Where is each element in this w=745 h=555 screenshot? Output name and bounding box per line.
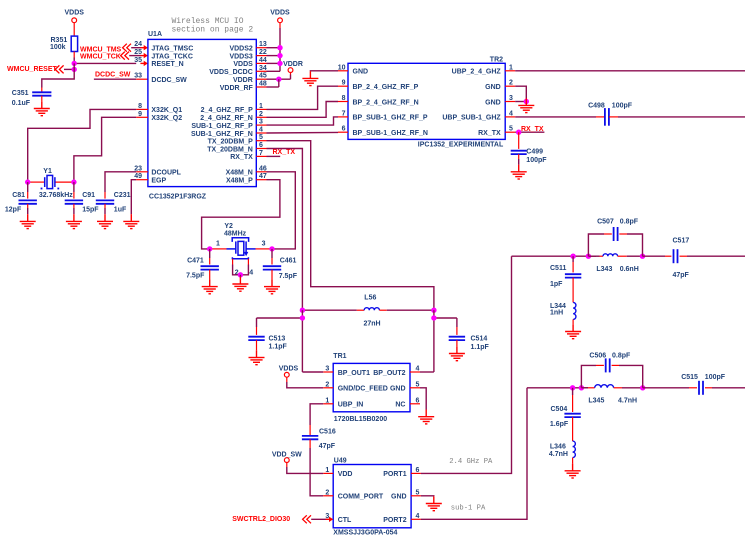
pin stub pin 9: [136, 116, 148, 118]
svg-text:1.1pF: 1.1pF: [269, 344, 288, 351]
pin stub pin 23: [136, 171, 148, 173]
capacitor C461: [263, 266, 281, 269]
ground below EGP: [123, 214, 139, 228]
svg-text:2_4_GHZ_RF_P: 2_4_GHZ_RF_P: [201, 107, 253, 114]
svg-text:VDDS: VDDS: [270, 10, 290, 17]
wire Y1 right to C91: [73, 182, 75, 192]
svg-text:DCDC_SW: DCDC_SW: [95, 72, 131, 79]
U49 pin stub 2: [323, 495, 333, 497]
wire WMCU_TMS to pin 24: [131, 47, 141, 49]
pin stub pin 44: [256, 62, 266, 64]
capacitor C513: [248, 337, 264, 340]
wire C504 to L346: [572, 417, 574, 428]
wire X48M_N pin 46 to Y2 pin 3: [267, 172, 296, 249]
capacitor C507: [614, 227, 618, 241]
ground below C514: [449, 346, 465, 360]
U49 pin stub 5: [411, 495, 421, 497]
junction VDDS2: [277, 45, 282, 50]
TR2 pin stub 3: [505, 101, 515, 103]
transformer TR2 body: [348, 63, 505, 139]
wire rail L345 to C515: [643, 387, 689, 389]
svg-text:VDDR: VDDR: [233, 77, 253, 84]
svg-text:C231: C231: [114, 192, 131, 199]
offpage chevron WMCU_TCK: [121, 52, 129, 60]
TR1 pin stub 3: [323, 371, 333, 373]
svg-text:NC: NC: [395, 402, 405, 409]
svg-text:1nH: 1nH: [550, 310, 563, 317]
TR2 pin stub 4: [505, 116, 515, 118]
svg-text:C516: C516: [319, 428, 336, 435]
svg-text:47pF: 47pF: [319, 443, 336, 450]
svg-text:SUB-1_GHZ_RF_P: SUB-1_GHZ_RF_P: [191, 123, 253, 130]
wire C506 to right riser: [612, 364, 619, 366]
wire node A down to TR1 BP_OUT1: [301, 310, 303, 372]
svg-text:GND: GND: [353, 69, 369, 76]
pin stub pin 34: [256, 70, 266, 72]
transformer TR1 body: [333, 363, 410, 411]
wire TR2 pin 5 RX_TX stub: [515, 131, 544, 133]
wire Y2 case pins 2 and 4 to ground: [232, 259, 234, 265]
svg-text:1uF: 1uF: [114, 207, 127, 214]
svg-text:BP_OUT2: BP_OUT2: [373, 370, 405, 377]
junction C504 tap: [570, 385, 575, 390]
svg-text:CC1352P1F3RGZ: CC1352P1F3RGZ: [149, 194, 207, 201]
svg-text:UBP_SUB-1_GHZ: UBP_SUB-1_GHZ: [442, 115, 501, 122]
svg-text:0.1uF: 0.1uF: [12, 100, 31, 107]
junction node A branch: [300, 315, 305, 320]
junction WMCU_RESET node: [72, 67, 77, 72]
wire junction down to C351: [42, 63, 74, 87]
pin stub pin 5: [256, 140, 266, 142]
capacitor C471: [201, 266, 219, 269]
svg-text:27nH: 27nH: [364, 320, 381, 327]
ground below Y2: [232, 277, 248, 291]
svg-text:0.8pF: 0.8pF: [612, 353, 631, 360]
svg-text:VDDS2: VDDS2: [229, 46, 252, 53]
op-amp U1A chip body CC1352: [148, 39, 256, 186]
wire X48M_P pin 47 to Y2 pin 1: [202, 180, 280, 249]
junction Y1 right node: [71, 179, 76, 184]
svg-text:4.7nH: 4.7nH: [549, 451, 568, 458]
wire TR1 pin 4 to node B vertical: [420, 371, 434, 373]
junction C506 right riser: [640, 385, 645, 390]
U49 pin stub 6: [411, 472, 421, 474]
svg-text:TX_20DBM_P: TX_20DBM_P: [208, 139, 253, 146]
ground below C499: [511, 165, 527, 179]
wire C514 riser: [456, 318, 458, 327]
wire C231 to ground: [104, 204, 106, 208]
svg-text:UBP_IN: UBP_IN: [338, 402, 364, 409]
wire TR2 pin 1 UBP_2_4_GHZ rail: [515, 70, 745, 72]
capacitor C511: [565, 274, 581, 277]
ground at TR2 pins 2-3: [518, 98, 534, 112]
TR1 pin stub 1: [323, 403, 333, 405]
input arrow U49 CTL pin 3: [326, 518, 331, 520]
wire VDDS to R351: [73, 23, 75, 36]
junction node B (L56 right): [431, 308, 436, 313]
svg-text:0.6nH: 0.6nH: [620, 266, 639, 273]
crystal Y2 48MHz: [211, 248, 227, 250]
svg-text:DCOUPL: DCOUPL: [151, 170, 181, 177]
svg-text:C91: C91: [82, 192, 95, 199]
svg-text:100pF: 100pF: [612, 103, 633, 110]
svg-text:GND: GND: [391, 494, 407, 501]
wire DCDC_SW to pin 33: [94, 78, 136, 80]
svg-text:25: 25: [134, 49, 142, 56]
wire L346 to ground: [572, 458, 574, 464]
ground at U49 pin 5: [426, 496, 442, 510]
wire VDDS to TR1 pin 2: [286, 377, 288, 382]
crystal Y1: [29, 181, 45, 183]
ground below C351: [34, 101, 50, 115]
svg-text:C499: C499: [526, 149, 543, 156]
wire C507 to right riser: [619, 233, 627, 235]
ground below C91: [66, 214, 82, 228]
wire RX_TX down to C499: [518, 132, 520, 149]
svg-text:XMSSJJ3G0PA-054: XMSSJJ3G0PA-054: [333, 530, 397, 537]
pin stub pin 22: [256, 55, 266, 57]
wire TR1 pin 3 to node A vertical: [302, 371, 323, 373]
svg-text:C511: C511: [550, 265, 566, 272]
pin stub pin 8: [136, 108, 148, 110]
wire C351 to ground: [41, 96, 43, 102]
wire C461 to ground: [271, 270, 273, 280]
svg-text:X32K_Q1: X32K_Q1: [151, 107, 182, 114]
wire C499 to ground: [518, 154, 520, 159]
wire node A branch to C513: [257, 317, 303, 319]
svg-text:C514: C514: [471, 336, 488, 343]
svg-text:L343: L343: [596, 266, 612, 273]
pin stub pin 49: [136, 179, 148, 181]
capacitor C81: [19, 200, 37, 203]
junction C511 tap: [570, 254, 575, 259]
offpage chevron SWCTRL2_DIO30: [303, 515, 311, 523]
svg-text:DCDC_SW: DCDC_SW: [151, 77, 187, 84]
svg-text:32.768kHz: 32.768kHz: [39, 192, 73, 199]
junction TR2 GND pins: [524, 99, 529, 104]
wire RX_TX stub at chip pin 7: [267, 155, 281, 157]
wire U49 PORT1 up to 2.4GHz filter rail: [421, 256, 512, 473]
svg-text:1: 1: [216, 241, 220, 248]
svg-text:RX_TX: RX_TX: [230, 154, 253, 161]
wire X32K_Q2 pin 9 to Y1 right: [74, 117, 136, 182]
capacitor C498: [605, 108, 609, 126]
svg-text:U49: U49: [334, 458, 347, 465]
svg-text:100pF: 100pF: [705, 374, 726, 381]
svg-text:12pF: 12pF: [5, 207, 22, 214]
pin stub pin 46: [256, 171, 266, 173]
wire node B down to TR1 BP_OUT2: [433, 310, 435, 372]
wire C471 to ground: [209, 270, 211, 280]
wire C81 to ground: [27, 204, 29, 208]
TR2 pin stub 7: [338, 116, 348, 118]
svg-text:PORT1: PORT1: [383, 471, 406, 478]
svg-text:EGP: EGP: [151, 178, 166, 185]
junction node B branch: [431, 315, 436, 320]
svg-text:BP_2_4_GHZ_RF_N: BP_2_4_GHZ_RF_N: [353, 99, 419, 106]
pin stub pin 6: [256, 148, 266, 150]
wire Y2 pin3 to C461: [271, 249, 273, 258]
svg-text:0.8pF: 0.8pF: [620, 219, 639, 226]
wire 2.4GHz filter rail: [512, 255, 597, 257]
TR1 pin stub 4: [410, 371, 420, 373]
wire U49 PORT2 up to sub-1 filter rail: [421, 388, 527, 520]
capacitor C506: [606, 358, 610, 372]
svg-text:WMCU_TCK: WMCU_TCK: [80, 53, 121, 60]
pin stub pin 1: [256, 108, 266, 110]
svg-text:TX_20DBM_N: TX_20DBM_N: [207, 146, 253, 153]
wire C517 to right edge: [680, 255, 688, 257]
svg-text:4: 4: [249, 269, 253, 276]
svg-text:C507: C507: [597, 219, 614, 226]
svg-text:BP_SUB-1_GHZ_RF_P: BP_SUB-1_GHZ_RF_P: [353, 115, 428, 122]
junction Y2 pin 1 node: [207, 246, 212, 251]
svg-text:GND: GND: [485, 84, 501, 91]
TR2 pin stub 8: [338, 101, 348, 103]
wire C504 branch down: [572, 388, 574, 395]
svg-text:IPC1352_EXPERIMENTAL: IPC1352_EXPERIMENTAL: [418, 142, 504, 149]
TR2 pin stub 5: [505, 131, 515, 133]
input arrow pin 24: [140, 47, 145, 49]
inductor L344: [573, 302, 576, 319]
pin stub pin 13: [256, 47, 266, 49]
svg-text:TR1: TR1: [333, 353, 346, 360]
svg-text:47pF: 47pF: [673, 272, 690, 279]
wire TX_20DBM_N pin 6 to node A: [267, 149, 303, 311]
svg-text:section on page 2: section on page 2: [172, 26, 254, 35]
svg-text:33: 33: [134, 73, 142, 80]
wire C511 to L344: [572, 278, 574, 288]
wire sub-1 filter rail: [527, 387, 588, 389]
svg-text:Y2: Y2: [224, 223, 233, 230]
wire WMCU_RESET to junction: [64, 68, 74, 70]
pin stub pin 47: [256, 179, 266, 181]
wire TR2 GND pin 10 to ground: [310, 70, 338, 72]
inductor L343: [588, 255, 599, 257]
junction Y2 case ground: [238, 272, 243, 277]
U49 pin stub 1: [323, 472, 333, 474]
svg-text:15pF: 15pF: [82, 207, 99, 214]
svg-text:C461: C461: [280, 257, 297, 264]
svg-text:C471: C471: [187, 257, 204, 264]
wire pin 34 VDDS_DCDC to rail: [267, 70, 281, 72]
svg-text:Y1: Y1: [43, 168, 52, 175]
svg-text:WMCU_RESET: WMCU_RESET: [7, 66, 58, 73]
wire VDDR node down to pin 48 row: [278, 79, 280, 87]
svg-text:VDDR_RF: VDDR_RF: [220, 85, 254, 92]
junction Y1 left node: [25, 179, 30, 184]
wire VDDS rail down to VDDS_DCDC: [279, 23, 281, 28]
wire WMCU_TCK to pin 25: [129, 55, 141, 57]
wire pin 22 VDDS3 to rail: [267, 55, 281, 57]
resistor R351: [71, 36, 77, 51]
TR1 pin stub 6: [410, 403, 420, 405]
offpage chevron WMCU_TMS: [123, 44, 131, 52]
wire DCOUPL pin 23 to C231: [105, 172, 136, 192]
wire U49 GND pin 5 to ground: [421, 495, 434, 498]
svg-text:CTL: CTL: [338, 517, 352, 524]
svg-text:4.7nH: 4.7nH: [618, 397, 637, 404]
svg-text:RX_TX: RX_TX: [478, 130, 501, 137]
wire chip pin 4 to TR2 pin 6: [267, 131, 339, 134]
svg-text:VDDS: VDDS: [64, 10, 84, 17]
wire L344 to ground: [572, 319, 574, 324]
wire TR1 pin 5 to ground: [420, 388, 426, 410]
inductor L56: [302, 309, 356, 311]
svg-text:RX_TX: RX_TX: [273, 149, 296, 156]
svg-text:L345: L345: [588, 397, 604, 404]
svg-text:7.5pF: 7.5pF: [279, 273, 298, 280]
svg-text:X48M_P: X48M_P: [226, 178, 253, 185]
ground below C231: [97, 214, 113, 228]
TR2 pin stub 6: [338, 131, 348, 133]
wire pin 48 VDDR_RF: [267, 86, 279, 88]
svg-text:48MHz: 48MHz: [224, 231, 247, 238]
svg-text:sub-1 PA: sub-1 PA: [451, 505, 486, 513]
wire rail L343 to C517: [643, 255, 666, 257]
wire pin 45 VDDR to VDDR symbol: [267, 78, 291, 80]
svg-text:BP_OUT1: BP_OUT1: [338, 370, 370, 377]
wire Y2 pin1 to C471: [209, 249, 211, 258]
svg-text:RESET_N: RESET_N: [151, 61, 183, 68]
svg-text:1.1pF: 1.1pF: [471, 344, 490, 351]
ground below C471: [202, 279, 218, 293]
svg-text:TR2: TR2: [490, 57, 503, 64]
svg-text:7.5pF: 7.5pF: [186, 273, 205, 280]
wire C515 to right edge: [705, 387, 712, 389]
pin stub pin 7: [256, 155, 266, 157]
svg-text:2_4_GHZ_RF_N: 2_4_GHZ_RF_N: [200, 115, 253, 122]
svg-text:1720BL15B0200: 1720BL15B0200: [334, 416, 387, 423]
wire C511 branch down: [572, 256, 574, 262]
pin stub pin 2: [256, 116, 266, 118]
wire Y1 left to C81: [27, 182, 29, 192]
pin stub pin 48: [256, 86, 266, 88]
TR2 pin stub 10: [338, 70, 348, 72]
U49 pin stub 4: [411, 518, 421, 520]
svg-text:C351: C351: [12, 90, 29, 97]
wire TR2 pin 2 GND down: [515, 86, 526, 101]
junction VDDR node: [276, 77, 281, 82]
svg-text:SWCTRL2_DIO30: SWCTRL2_DIO30: [232, 516, 290, 523]
capacitor C499: [511, 151, 527, 154]
svg-text:24: 24: [134, 41, 142, 48]
junction C507 left riser: [586, 254, 591, 259]
TR2 pin stub 2: [505, 85, 515, 87]
wire C516 down to U49 COMM_PORT: [309, 439, 311, 448]
ground below C513: [249, 350, 265, 364]
svg-text:C515: C515: [681, 374, 698, 381]
svg-text:L346: L346: [550, 444, 566, 451]
wire TR1 pin 1 UBP_IN to C516: [310, 404, 323, 425]
ground at TR1 pin 5: [418, 410, 434, 424]
wire node B branch to C514: [434, 317, 457, 319]
svg-text:R351: R351: [51, 37, 68, 44]
TR1 pin stub 2: [323, 387, 333, 389]
svg-text:GND: GND: [390, 386, 406, 393]
svg-text:C504: C504: [551, 406, 568, 413]
svg-text:VDDS_DCDC: VDDS_DCDC: [209, 69, 253, 76]
wire C513 riser: [256, 318, 258, 327]
svg-text:UBP_2_4_GHZ: UBP_2_4_GHZ: [452, 69, 502, 76]
svg-text:L56: L56: [364, 295, 376, 302]
svg-text:X48M_N: X48M_N: [226, 170, 253, 177]
svg-text:C81: C81: [12, 192, 25, 199]
svg-text:VDDS: VDDS: [233, 61, 253, 68]
junction node A (L56 left): [300, 308, 305, 313]
pin stub pin 3: [256, 124, 266, 126]
svg-text:VDDS: VDDS: [279, 366, 299, 373]
junction RX_TX C499: [516, 130, 521, 135]
capacitor C517: [674, 249, 678, 263]
ground below L346: [565, 464, 581, 478]
capacitor C514: [449, 337, 465, 340]
svg-text:100k: 100k: [50, 44, 66, 51]
svg-text:SUB-1_GHZ_RF_N: SUB-1_GHZ_RF_N: [191, 131, 253, 138]
junction VDDS: [277, 61, 282, 66]
junction C507 right riser: [640, 254, 645, 259]
input arrow pin 35 RESET_N: [140, 62, 145, 64]
wire TR2 pin 3 GND: [515, 101, 526, 103]
TR1 pin stub 5: [410, 387, 420, 389]
wire chip pin 1 to TR2 pin 9: [267, 86, 339, 109]
svg-text:U1A: U1A: [148, 31, 162, 38]
TR2 pin stub 1: [505, 70, 515, 72]
ground below C81: [20, 214, 36, 228]
svg-text:COMM_PORT: COMM_PORT: [338, 494, 384, 501]
junction Y2 pin 3 node: [269, 246, 274, 251]
capacitor C351: [32, 92, 51, 95]
wire VDDR down to pin 45 row: [290, 73, 292, 75]
wire SWCTRL2_DIO30 to CTL pin 3: [311, 518, 327, 520]
wire TR2 pin 4 to C498: [515, 116, 596, 118]
capacitor C515: [699, 381, 703, 395]
ground below C461: [264, 279, 280, 293]
svg-text:RX_TX: RX_TX: [521, 126, 544, 133]
wire chip pin 3 to TR2 pin 7: [267, 117, 339, 125]
svg-text:PORT2: PORT2: [383, 517, 406, 524]
wire pin 44 VDDS to rail: [267, 62, 281, 64]
input arrow pin 25: [140, 55, 145, 57]
wire chip pin 2 to TR2 pin 8: [267, 102, 339, 118]
ground below L344: [565, 324, 581, 338]
svg-text:BP_SUB-1_GHZ_RF_N: BP_SUB-1_GHZ_RF_N: [353, 130, 428, 137]
svg-text:GND/DC_FEED: GND/DC_FEED: [338, 386, 388, 393]
svg-text:X32K_Q2: X32K_Q2: [151, 115, 182, 122]
wire EGP pin 49 to ground: [131, 180, 136, 215]
svg-text:100pF: 100pF: [526, 157, 547, 164]
wire C507 parallel branch: [588, 234, 604, 256]
svg-text:35: 35: [134, 57, 142, 64]
op-amp U49 RF switch body: [333, 465, 411, 528]
wire X32K_Q1 pin 8 to Y1 left: [28, 109, 137, 182]
capacitor C504: [564, 414, 580, 417]
svg-text:VDD: VDD: [338, 471, 353, 478]
svg-text:C517: C517: [673, 238, 690, 245]
capacitor C516: [302, 436, 318, 439]
wire C514 to ground: [456, 340, 458, 346]
inductor L345: [581, 387, 588, 389]
wire C513 to ground: [256, 340, 258, 350]
junction C506 left riser: [579, 385, 584, 390]
svg-text:JTAG_TCKC: JTAG_TCKC: [151, 53, 192, 60]
svg-text:VDDR: VDDR: [283, 61, 303, 68]
offpage chevron WMCU_RESET: [55, 65, 63, 73]
svg-text:JTAG_TMSC: JTAG_TMSC: [151, 46, 193, 53]
svg-text:VDDS3: VDDS3: [229, 53, 252, 60]
svg-text:C498: C498: [588, 103, 605, 110]
svg-text:1pF: 1pF: [550, 281, 563, 288]
